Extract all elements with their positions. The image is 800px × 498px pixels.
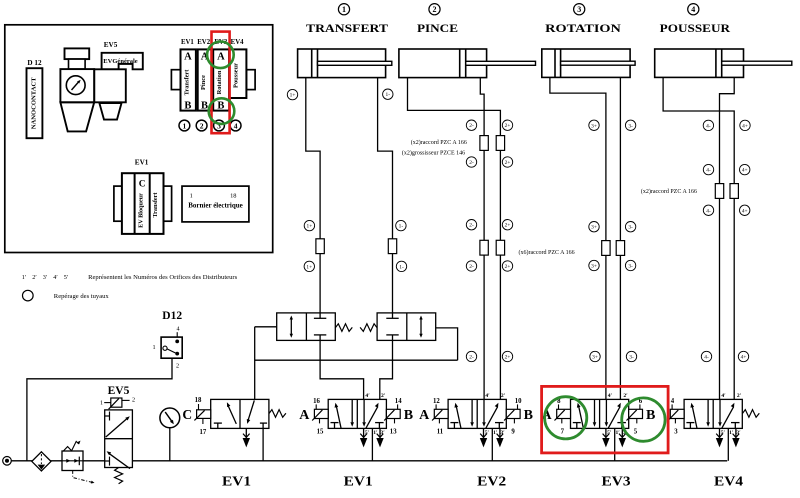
svg-text:4: 4: [691, 5, 695, 14]
wire tube 4+ (pousseur left port): [663, 77, 734, 399]
fitting raccord lower on tube 2+: [496, 240, 504, 255]
pressure gauge C: [160, 408, 180, 461]
regulator: [62, 441, 95, 484]
node tube mark 1+: [304, 220, 314, 230]
node tube mark 2+: [502, 157, 512, 167]
svg-text:2-: 2-: [469, 160, 474, 166]
svg-text:5: 5: [634, 429, 638, 436]
svg-text:3+: 3+: [591, 123, 597, 129]
cylinder ROTATION (3): [542, 49, 635, 77]
svg-text:A: A: [419, 408, 430, 423]
svg-text:1: 1: [183, 121, 187, 130]
nanocontact D12 block: [27, 68, 43, 138]
spring EV4 right: [742, 410, 759, 418]
svg-text:EV1: EV1: [181, 39, 194, 46]
svg-text:EV2: EV2: [197, 39, 210, 46]
svg-text:2: 2: [176, 363, 179, 370]
port labels EV3: [607, 393, 628, 436]
green circle EV3 B: [622, 398, 665, 441]
svg-text:4+: 4+: [742, 168, 748, 174]
svg-text:(x2)raccord PZC A 166: (x2)raccord PZC A 166: [641, 188, 697, 195]
wire tube 3+ (rotation left port): [550, 77, 606, 399]
circled numbers 1-4 under table: [179, 120, 241, 131]
svg-text:4+: 4+: [742, 208, 748, 214]
air source: [3, 457, 12, 466]
svg-text:A: A: [217, 52, 225, 63]
spring EV5 bottom: [115, 468, 123, 484]
wire EV4 port 1 to supply bus: [727, 428, 729, 460]
svg-text:4′: 4′: [485, 393, 490, 399]
fitting raccord on tube 3-: [616, 241, 624, 256]
cylinder PINCE (2): [399, 49, 536, 78]
node tube mark 2-: [466, 157, 476, 167]
svg-text:15: 15: [317, 429, 324, 436]
wire pilot loop EV1C to bloqueurs: [255, 327, 458, 400]
wire tube 1+ lower: [320, 340, 364, 399]
pilot solenoid EV1 left (pin 16/15): [312, 398, 328, 436]
node tube mark 3+: [589, 222, 599, 232]
node tube mark 4+: [740, 164, 750, 174]
node tube mark 3-: [626, 351, 636, 361]
pilot EV5 top: [100, 397, 135, 410]
svg-text:2: 2: [132, 397, 135, 404]
header circled 1: [338, 4, 349, 15]
svg-text:4′: 4′: [608, 393, 613, 399]
svg-text:TRANSFERT: TRANSFERT: [306, 21, 388, 35]
svg-text:4-: 4-: [706, 168, 711, 174]
valve bloqueur left (EV1 pilot): [277, 313, 336, 341]
fitting raccord on tube 1-: [388, 239, 396, 254]
green circle on A of EV3 column: [207, 42, 234, 69]
svg-text:1: 1: [152, 344, 155, 351]
svg-text:2′: 2′: [501, 393, 506, 399]
svg-text:4′: 4′: [53, 274, 58, 281]
svg-text:Pince: Pince: [200, 75, 207, 90]
svg-text:1′: 1′: [22, 274, 27, 281]
svg-text:1: 1: [100, 400, 103, 407]
svg-text:C: C: [182, 407, 192, 422]
svg-text:B: B: [646, 408, 655, 423]
svg-text:4-: 4-: [706, 123, 711, 129]
node tube mark 3+: [589, 260, 599, 270]
spring bloqueur right: [360, 324, 377, 332]
svg-text:EV5: EV5: [108, 385, 130, 397]
node tube mark 3-: [625, 222, 635, 232]
node tube mark 1-: [396, 220, 406, 230]
red highlight rectangle EV3: [542, 386, 669, 453]
header circled 4: [688, 4, 699, 15]
svg-text:Transfert: Transfert: [184, 69, 191, 96]
node tube mark 4-: [703, 164, 713, 174]
pilot solenoid EV2 right (pin 10/9): [504, 398, 522, 436]
svg-text:B: B: [524, 408, 533, 423]
wire tube 1- lower: [380, 340, 393, 399]
svg-text:13: 13: [390, 429, 397, 436]
svg-text:EV4: EV4: [231, 39, 244, 46]
svg-text:EVGénérale: EVGénérale: [103, 58, 137, 65]
svg-text:2+: 2+: [505, 123, 511, 129]
header circled 3: [574, 4, 585, 15]
svg-text:4′: 4′: [721, 393, 726, 399]
pilot solenoid EV3 right (pin 6/5): [627, 398, 643, 436]
node tube mark 1+: [304, 261, 314, 271]
filter: [32, 452, 51, 471]
wire EV1C port to supply bus: [262, 428, 264, 460]
valve bloqueur right: [377, 313, 436, 341]
svg-text:EV4: EV4: [714, 474, 743, 489]
EV general valve pictorial: [94, 69, 126, 119]
valve EV5 (3/2): [105, 410, 133, 469]
node tube mark 3-: [625, 260, 635, 270]
svg-text:(x2)grossisseur PZCE 146: (x2)grossisseur PZCE 146: [402, 150, 465, 157]
node tube mark 1-: [396, 261, 406, 271]
spring bloqueur left: [335, 324, 352, 332]
svg-text:D12: D12: [162, 310, 182, 322]
svg-text:2+: 2+: [505, 355, 511, 361]
svg-text:Bornier électrique: Bornier électrique: [188, 202, 243, 210]
red highlight rectangle on EV3 column: [212, 32, 230, 134]
svg-text:12: 12: [433, 398, 440, 405]
fitting raccord on tube 1+: [316, 239, 324, 254]
svg-text:1-: 1-: [399, 264, 404, 270]
svg-text:1+: 1+: [290, 93, 296, 99]
svg-text:3+: 3+: [592, 355, 598, 361]
EV1..EV4 table labels: [181, 39, 244, 46]
fitting raccord on tube 2-: [480, 136, 488, 151]
fitting raccord on tube 2+: [496, 136, 504, 151]
pilot solenoid EV1 right (pin 14/13): [384, 398, 402, 436]
exhaust ports EV2: [480, 428, 504, 447]
wire EV3 port 1 to supply bus: [614, 428, 616, 460]
legend layout box: [5, 25, 273, 253]
wire D12 pin2 to supply: [27, 358, 172, 461]
svg-text:1-: 1-: [399, 224, 404, 230]
svg-text:EV1: EV1: [344, 474, 373, 489]
pilot solenoid EV1C (pin 18/17): [194, 397, 210, 436]
svg-text:2′: 2′: [381, 393, 386, 399]
svg-text:1+: 1+: [306, 264, 312, 270]
note tube marking: [23, 290, 110, 301]
svg-text:2′: 2′: [623, 393, 628, 399]
node tube mark 3-: [625, 120, 635, 130]
pilot solenoid EV3 left (pin 8/7): [555, 398, 571, 436]
wire tube 4- (pousseur right port): [720, 77, 735, 399]
svg-text:B: B: [404, 408, 413, 423]
svg-text:2+: 2+: [505, 223, 511, 229]
svg-text:NANOCONTACT: NANOCONTACT: [31, 77, 38, 129]
node tube mark 2+: [502, 261, 512, 271]
node tube mark 4-: [703, 120, 713, 130]
svg-text:1: 1: [190, 193, 193, 200]
svg-text:3′: 3′: [43, 274, 48, 281]
svg-text:4+: 4+: [742, 123, 748, 129]
svg-text:10: 10: [515, 398, 522, 405]
svg-text:3: 3: [674, 429, 678, 436]
svg-text:B: B: [184, 101, 191, 112]
svg-text:(x2)raccord PZC A 166: (x2)raccord PZC A 166: [411, 139, 467, 146]
svg-text:EV5: EV5: [104, 41, 118, 49]
svg-text:16: 16: [313, 398, 320, 405]
svg-text:Repérage des tuyaux: Repérage des tuyaux: [54, 293, 110, 300]
fitting raccord lower on tube 2-: [480, 240, 488, 255]
node tube mark 1+: [287, 89, 297, 99]
svg-text:1-: 1-: [386, 92, 391, 98]
svg-text:14: 14: [395, 398, 402, 405]
node tube mark 4+: [738, 351, 748, 361]
svg-text:1′: 1′: [493, 430, 498, 436]
note orifice numbers: [22, 274, 238, 281]
svg-text:B: B: [201, 101, 208, 112]
green circle on B of EV3 column: [209, 98, 235, 124]
svg-text:17: 17: [200, 429, 207, 436]
svg-text:A: A: [299, 408, 310, 423]
svg-text:B: B: [217, 101, 224, 112]
svg-text:3+: 3+: [591, 264, 597, 270]
svg-text:4′: 4′: [365, 393, 370, 399]
svg-text:4-: 4-: [706, 208, 711, 214]
svg-text:EV1: EV1: [222, 474, 251, 489]
svg-text:Pousseur: Pousseur: [233, 63, 240, 88]
node tube mark 2-: [466, 220, 476, 230]
svg-text:18: 18: [195, 397, 202, 404]
svg-text:C: C: [139, 180, 146, 190]
svg-text:EV3: EV3: [602, 474, 631, 489]
svg-text:2′: 2′: [737, 393, 742, 399]
valve EV1 body: [328, 399, 386, 428]
svg-text:2: 2: [433, 5, 437, 14]
node tube mark 2+: [502, 220, 512, 230]
switch D12: [152, 326, 182, 370]
svg-text:4: 4: [234, 121, 238, 130]
svg-text:3: 3: [577, 5, 581, 14]
svg-text:2-: 2-: [469, 123, 474, 129]
header circled 2: [429, 4, 440, 15]
node tube mark 1-: [383, 89, 393, 99]
svg-text:9: 9: [511, 429, 515, 436]
wire tube 3- (rotation right port): [619, 77, 621, 399]
svg-text:ROTATION: ROTATION: [545, 21, 621, 35]
fitting raccord on tube 4+: [730, 184, 738, 199]
valve EV2 body: [448, 399, 506, 428]
node tube mark 3+: [589, 120, 599, 130]
node tube mark 3+: [590, 351, 600, 361]
svg-text:EV1: EV1: [135, 159, 149, 167]
svg-text:1: 1: [342, 5, 346, 14]
node tube mark 4+: [740, 120, 750, 130]
svg-text:3+: 3+: [591, 225, 597, 231]
spring EV1C right: [269, 410, 286, 418]
svg-text:3-: 3-: [628, 225, 633, 231]
cylinder TRANSFERT (1): [298, 49, 392, 78]
node tube mark 2-: [466, 351, 476, 361]
svg-text:2′: 2′: [32, 274, 37, 281]
node tube mark 2+: [502, 351, 512, 361]
svg-text:4-: 4-: [704, 355, 709, 361]
exhaust ports EV3: [602, 428, 626, 447]
svg-text:Représentent les Numéros des O: Représentent les Numéros des Orifices de…: [88, 274, 237, 281]
node tube mark 2-: [466, 261, 476, 271]
svg-text:PINCE: PINCE: [417, 21, 458, 35]
port labels EV2: [485, 393, 506, 436]
wire tube 1- (transfert right): [378, 78, 393, 313]
node tube mark 4+: [740, 205, 750, 215]
svg-text:2-: 2-: [469, 223, 474, 229]
green circle EV3 A: [545, 397, 587, 439]
svg-text:3-: 3-: [628, 264, 633, 270]
svg-text:(x6)raccord PZC A 166: (x6)raccord PZC A 166: [519, 249, 575, 256]
svg-text:EV2: EV2: [477, 474, 506, 489]
svg-text:1′: 1′: [729, 430, 734, 436]
svg-text:A: A: [184, 52, 192, 63]
node tube mark 2-: [466, 120, 476, 130]
port labels EV1: [365, 393, 386, 436]
EV1..EV4 distributor table: [171, 49, 255, 111]
svg-text:5′: 5′: [64, 274, 69, 281]
svg-text:Transfert: Transfert: [152, 192, 159, 218]
svg-text:4: 4: [176, 326, 179, 333]
EVGenerale box: [102, 53, 143, 70]
svg-text:D 12: D 12: [27, 59, 42, 67]
node tube mark 4-: [701, 351, 711, 361]
wire tube 2+ (pince left port): [408, 78, 501, 400]
wire tube 1+ (transfert left): [306, 78, 320, 313]
pilot solenoid EV2 left (pin 12/11): [432, 398, 448, 436]
svg-text:3-: 3-: [628, 123, 633, 129]
port labels EV4: [721, 393, 742, 436]
fitting raccord on tube 4-: [715, 184, 723, 199]
svg-text:1′: 1′: [373, 430, 378, 436]
node tube mark 2+: [502, 120, 512, 130]
svg-text:2: 2: [200, 121, 204, 130]
svg-text:EV Bloqueur: EV Bloqueur: [138, 193, 145, 228]
exhaust ports EV1: [360, 428, 384, 447]
svg-text:4+: 4+: [741, 355, 747, 361]
svg-text:1+: 1+: [307, 224, 313, 230]
svg-text:2+: 2+: [505, 264, 511, 270]
exhaust ports EV4: [716, 428, 740, 447]
wire EV1 port 1 to supply bus: [371, 428, 373, 460]
FRL unit pictorial (general air unit): [60, 48, 94, 131]
supply bus: [6, 460, 727, 462]
valve EV3 body: [571, 399, 629, 428]
fitting raccord on tube 3+: [602, 241, 610, 256]
node tube mark 4-: [703, 205, 713, 215]
wire EV2 port 1 to supply bus: [491, 428, 493, 460]
pilot solenoid EV4 left (pin 4/3): [668, 398, 684, 436]
svg-text:2-: 2-: [469, 355, 474, 361]
EV1 bloqueur block: [114, 173, 172, 234]
svg-text:1′: 1′: [616, 430, 621, 436]
svg-text:POUSSEUR: POUSSEUR: [660, 21, 731, 35]
svg-text:2-: 2-: [469, 264, 474, 270]
svg-text:2+: 2+: [505, 160, 511, 166]
svg-text:Rotation: Rotation: [216, 70, 223, 94]
svg-text:11: 11: [437, 429, 444, 436]
valve EV1 bloqueur (C) body: [211, 399, 269, 428]
bornier electrique box: [182, 186, 249, 222]
svg-text:3-: 3-: [629, 355, 634, 361]
exhaust EV1C: [245, 428, 247, 437]
svg-text:18: 18: [230, 193, 236, 200]
cylinder POUSSEUR (4): [655, 49, 792, 77]
valve EV4 body: [684, 399, 742, 428]
svg-text:7: 7: [561, 429, 565, 436]
wire tube 2- (pince right port): [480, 78, 484, 400]
svg-text:4: 4: [671, 398, 675, 405]
